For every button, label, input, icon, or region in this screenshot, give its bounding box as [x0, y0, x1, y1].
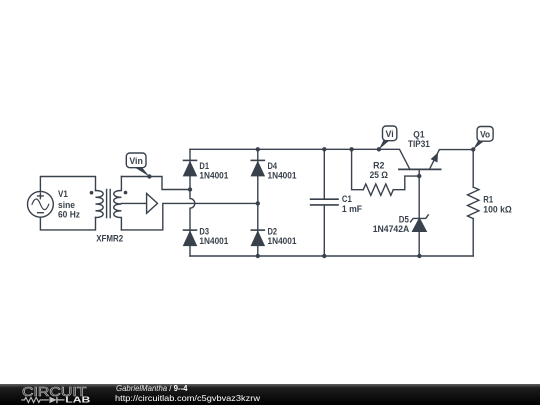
svg-text:Vo: Vo	[480, 130, 491, 140]
svg-text:V1: V1	[58, 189, 68, 199]
svg-text:1N4742A: 1N4742A	[373, 224, 410, 234]
svg-text:60 Hz: 60 Hz	[58, 210, 80, 220]
svg-text:TIP31: TIP31	[408, 139, 430, 149]
svg-text:1N4001: 1N4001	[268, 236, 297, 246]
transformer XFMR2 primary coil	[96, 191, 104, 218]
flag Vi	[379, 126, 397, 149]
svg-text:http://circuitlab.com/c5gvbvaz: http://circuitlab.com/c5gvbvaz3kzrw	[115, 393, 261, 403]
svg-text:R2: R2	[373, 160, 384, 170]
node dot bridge left mid	[188, 187, 192, 191]
wire center tap	[121, 202, 146, 204]
transformer XFMR2 secondary coil	[114, 177, 122, 230]
label R2	[370, 160, 389, 180]
resistor R2	[352, 149, 364, 189]
transistor Q1	[399, 168, 441, 170]
logo resistor zigzag	[21, 397, 49, 402]
phase dot primary	[90, 191, 94, 195]
phase dot secondary	[124, 191, 128, 195]
wire secondary bottom to bridge	[121, 203, 257, 230]
svg-text:LAB: LAB	[65, 396, 90, 405]
svg-text:100 kΩ: 100 kΩ	[483, 204, 512, 214]
node dot bridge right bottom	[256, 254, 260, 258]
flag Vo	[473, 127, 493, 150]
svg-text:1N4001: 1N4001	[199, 236, 228, 246]
svg-text:XFMR2: XFMR2	[96, 233, 123, 243]
label D3	[199, 227, 228, 247]
svg-text:Vi: Vi	[386, 129, 394, 139]
label Q1	[408, 130, 430, 150]
wire primary top	[40, 177, 95, 192]
label C1	[342, 194, 362, 214]
label V1	[58, 189, 80, 220]
node dot C1 bottom	[322, 254, 326, 258]
svg-text:25 Ω: 25 Ω	[370, 170, 389, 180]
label D2	[268, 227, 297, 247]
wire bottom rail	[190, 255, 473, 257]
node dot C1 top	[322, 147, 326, 151]
node dot Q1 base	[417, 174, 421, 178]
diode D2	[251, 229, 264, 231]
svg-text:D1: D1	[199, 161, 209, 171]
wire primary bottom	[40, 217, 95, 230]
capacitor C1	[323, 149, 325, 256]
transformer core	[107, 190, 111, 218]
wire secondary top to bridge	[121, 177, 190, 190]
svg-text:D3: D3	[199, 227, 209, 237]
svg-text:1N4001: 1N4001	[268, 171, 297, 181]
diode D1	[184, 159, 197, 161]
svg-text:D5: D5	[399, 214, 409, 224]
logo diode	[50, 397, 57, 403]
svg-text:R1: R1	[483, 195, 493, 205]
voltage source V1	[28, 191, 54, 217]
node dot Vo	[471, 147, 475, 151]
label D1	[199, 161, 228, 181]
wire bridge left branch with hop	[190, 149, 195, 256]
svg-text:sine: sine	[58, 200, 75, 210]
svg-text:Q1: Q1	[413, 130, 424, 140]
diode D4	[251, 159, 264, 161]
label D4	[268, 161, 297, 181]
svg-text:1 mF: 1 mF	[342, 204, 362, 214]
resistor R1	[472, 150, 474, 188]
node dot D5 bottom	[417, 254, 421, 258]
diode D3	[184, 229, 197, 231]
svg-text:C1: C1	[342, 194, 352, 204]
svg-text:Vin: Vin	[129, 156, 143, 166]
node dot Vin	[147, 174, 151, 178]
node dot Vi	[377, 147, 381, 151]
label R1	[483, 195, 512, 215]
svg-text:1N4001: 1N4001	[199, 171, 228, 181]
wire bridge right branch	[257, 149, 259, 256]
svg-text:D4: D4	[268, 161, 278, 171]
svg-text:GabrielMantha / 9--4: GabrielMantha / 9--4	[116, 384, 188, 393]
node dot bridge right mid	[256, 201, 260, 205]
svg-text:D2: D2	[268, 227, 278, 237]
zener diode D5	[413, 219, 426, 232]
ground center tap	[147, 194, 158, 214]
node dot bridge right top	[256, 147, 260, 151]
flag Vin	[126, 153, 149, 177]
node dot R2 top	[349, 147, 353, 151]
label D5	[373, 214, 410, 234]
wire top rail to collector	[190, 149, 410, 169]
